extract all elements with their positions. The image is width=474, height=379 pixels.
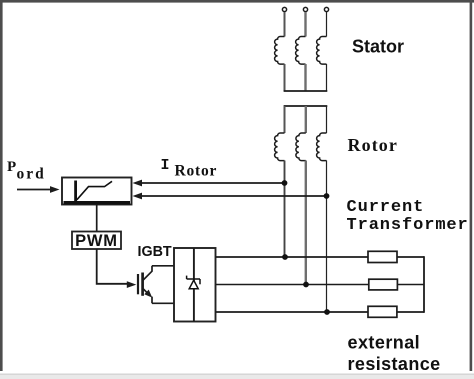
svg-text:resistance: resistance — [348, 354, 441, 374]
svg-text:IGBT: IGBT — [138, 244, 172, 260]
svg-text:Stator: Stator — [352, 37, 404, 57]
svg-text:Transformer: Transformer — [347, 216, 469, 235]
svg-text:PWM: PWM — [75, 232, 118, 250]
svg-text:external: external — [348, 333, 421, 353]
svg-text:Rotor: Rotor — [175, 163, 218, 180]
svg-text:Current: Current — [347, 198, 425, 217]
svg-text:ord: ord — [17, 166, 46, 183]
svg-text:Rotor: Rotor — [348, 135, 398, 155]
svg-text:I: I — [161, 157, 170, 174]
svg-text:P: P — [7, 159, 16, 175]
